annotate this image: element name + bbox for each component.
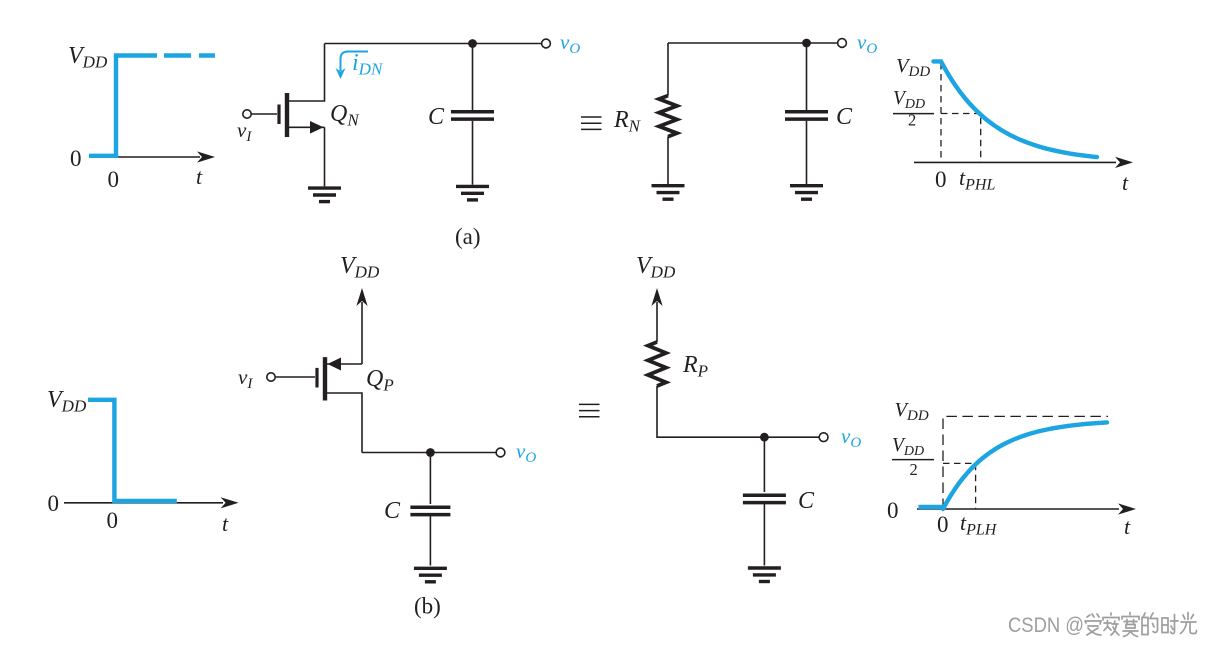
decay graph dashed half level [941,114,981,163]
svg-text:C: C [798,488,815,514]
equivalence symbol (a) [581,117,602,129]
current arrow iDN (blue) [341,52,369,72]
rise graph axis [917,503,1136,514]
node dot RN circuit [802,39,811,48]
svg-text:RP: RP [682,352,708,381]
watermark glyph mo [1122,613,1139,637]
capacitor C (RP circuit) [743,495,786,502]
resistor RP [648,342,666,386]
svg-text:t: t [1124,514,1131,539]
watermark glyph guang [1181,613,1197,634]
svg-text:VDD: VDD [340,253,380,282]
svg-text:C: C [428,104,445,130]
svg-text:0: 0 [48,491,60,516]
top wire RN circuit [668,42,838,44]
transistor QN channel bar [285,93,289,137]
label VDD/2 decay [893,88,934,130]
svg-text:VDD: VDD [636,253,676,282]
resistor RN [659,96,677,137]
svg-text:2: 2 [908,111,916,130]
wire cap C3 top [429,453,431,505]
svg-text:VDD: VDD [892,435,924,459]
svg-text:t: t [222,511,229,536]
decay graph axis [914,157,1133,168]
svg-text:vO: vO [560,30,580,57]
svg-text:VDD: VDD [47,387,87,416]
watermark glyph ji [1103,613,1119,635]
svg-text:vI: vI [238,365,253,392]
svg-text:vI: vI [237,118,252,145]
svg-text:VDD: VDD [896,55,930,80]
svg-text:(a): (a) [455,224,481,249]
watermark glyph de [1142,613,1158,635]
svg-text:0: 0 [937,512,949,537]
node dot RP circuit [760,433,769,442]
svg-text:vO: vO [516,439,536,466]
svg-text:tPHL: tPHL [959,165,995,194]
svg-text:t: t [196,164,203,189]
wire cap C2 top [806,43,808,110]
svg-text:VDD: VDD [68,43,108,72]
wire QN drain [287,44,325,102]
svg-text:C: C [836,104,853,130]
svg-text:vO: vO [857,30,877,57]
svg-text:iDN: iDN [352,50,384,79]
wire cap C1 top [472,44,474,111]
waveform b input step (blue) [88,400,177,501]
output terminal circle RP circuit [819,433,828,442]
svg-text:VDD: VDD [893,88,925,112]
rise curve (blue) [943,422,1107,509]
output terminal circle (a) [542,39,551,48]
wire cap C1 bottom [472,121,474,185]
ground RN [652,186,685,200]
output wire RP circuit [760,436,819,438]
rise graph dashed VDD level [943,416,1108,509]
rise graph dashed half level [943,463,976,509]
svg-text:VDD: VDD [895,399,929,424]
transistor QN gate bar [277,105,280,125]
ground capacitor RP circuit [748,568,781,582]
output terminal circle (b) [496,448,505,457]
capacitor C (RN circuit) [785,112,828,119]
input terminal circle vI (a) [243,110,251,118]
svg-text:0: 0 [935,167,947,192]
input terminal circle vI (b) [267,373,275,381]
svg-text:(b): (b) [414,594,441,619]
svg-text:RN: RN [613,107,642,136]
VDD arrow PMOS [356,288,367,364]
output terminal circle RN circuit [838,39,847,48]
top wire (a) NMOS to output [325,43,542,45]
ground capacitor (b) [414,568,447,582]
transistor QP gate bar [315,368,318,388]
transistor QP channel bar [323,357,327,400]
svg-text:C: C [384,498,401,524]
node dot (b) [426,448,435,457]
wire QN source with arrow [287,126,325,128]
ground capacitor (a) [456,186,489,200]
svg-text:vO: vO [841,424,861,451]
capacitor C (b) [410,507,450,514]
svg-text:tPLH: tPLH [960,510,998,539]
VDD arrow RP [651,288,662,342]
capacitor C (a) [451,112,494,119]
ground capacitor RN circuit [790,186,823,200]
wire cap C4 bottom [763,503,765,566]
waveform a input step (blue) [89,56,215,156]
wire RN bottom [667,137,669,184]
svg-text:0: 0 [107,508,119,533]
wire gate QP [275,376,315,378]
watermark glyph shi [1162,615,1178,634]
wire cap C4 top [763,437,765,492]
svg-text:t: t [1122,170,1129,195]
svg-text:0: 0 [108,167,120,192]
ground QN source [308,188,341,202]
wire QP drain down [325,393,362,453]
svg-text:0: 0 [887,498,899,523]
output wire (b) [362,452,496,454]
wire QP source with arrow [325,363,362,365]
wire cap C3 bottom [429,515,431,566]
wire gate QN [251,113,277,115]
node dot (a) [468,39,477,48]
svg-text:QP: QP [366,366,394,395]
equivalence symbol (b) [579,404,600,416]
label VDD/2 rise [892,435,934,479]
svg-text:QN: QN [330,101,360,130]
rise start flat (blue) [919,505,944,509]
wire RP bottom [657,386,760,437]
wire RN top [667,43,669,96]
decay graph dashed vertical at 0 [940,63,942,162]
svg-text:2: 2 [910,460,918,479]
wire cap C2 bottom [806,121,808,184]
svg-text:0: 0 [70,146,82,171]
wire QN source to ground [324,127,326,186]
waveform b input axis [64,497,239,508]
waveform a input axis [90,151,215,162]
svg-text:CSDN @: CSDN @ [1008,614,1084,637]
watermark glyph ai [1085,614,1101,635]
decay curve (blue) [934,61,1098,157]
